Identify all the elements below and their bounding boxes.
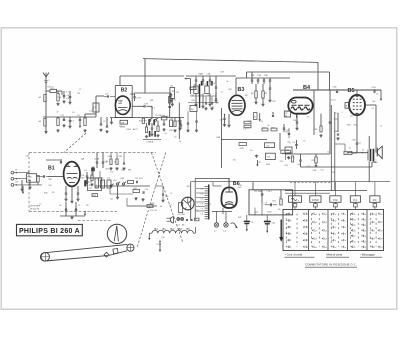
resistor <box>174 121 176 127</box>
svg-text:C4: C4 <box>84 170 86 172</box>
svg-text:R14: R14 <box>263 128 266 130</box>
svg-text:30: 30 <box>254 116 256 118</box>
resistor R19 <box>239 143 247 146</box>
svg-text:R29: R29 <box>312 160 315 162</box>
svg-text:e: e <box>315 206 316 208</box>
resistor R20 <box>281 150 291 153</box>
svg-text:25k: 25k <box>110 199 113 201</box>
svg-text:2k2: 2k2 <box>261 194 264 196</box>
wire bus y167 <box>301 166 373 168</box>
capacitor <box>202 76 204 80</box>
svg-text:C41: C41 <box>89 188 92 190</box>
box <box>95 178 99 188</box>
commutator table frame <box>283 210 384 251</box>
svg-text:R47: R47 <box>245 95 248 97</box>
wire bus <box>186 75 236 77</box>
tapped coil <box>208 185 210 220</box>
coil <box>84 118 86 126</box>
resistor R37 <box>128 181 134 184</box>
svg-text:5k: 5k <box>213 83 215 85</box>
svg-text:0,1: 0,1 <box>100 182 103 184</box>
capacitor <box>195 76 197 80</box>
resistor R17 R16 <box>244 121 251 124</box>
capacitor C156 <box>159 241 161 243</box>
svg-text:R13: R13 <box>248 121 251 123</box>
svg-text:C0: C0 <box>59 205 61 207</box>
capacitors C150 C151 <box>65 202 67 208</box>
capacitor C58 <box>315 163 317 166</box>
wire <box>252 182 254 190</box>
tube B5 <box>349 95 365 115</box>
svg-text:R9: R9 <box>52 192 54 194</box>
terminal circles <box>11 171 14 174</box>
capacitor C7 <box>170 93 172 95</box>
svg-text:C12: C12 <box>110 172 113 174</box>
svg-text:2: 2 <box>307 234 308 236</box>
wire <box>95 185 150 187</box>
coil <box>57 118 59 126</box>
svg-text:R162: R162 <box>266 164 270 166</box>
ground <box>63 124 65 125</box>
svg-text:R16: R16 <box>198 73 201 75</box>
B+ vertical2 <box>334 112 336 191</box>
wire <box>352 152 357 154</box>
wire top frame <box>195 177 229 179</box>
svg-text:C62: C62 <box>272 222 275 224</box>
strap lower edge <box>109 251 127 256</box>
svg-text:C7: C7 <box>170 205 172 207</box>
svg-text:C88: C88 <box>48 179 51 181</box>
svg-text:0,05: 0,05 <box>25 155 29 157</box>
svg-text:25: 25 <box>364 214 366 216</box>
cluster right <box>100 123 102 125</box>
capacitor <box>162 193 164 195</box>
meter box <box>179 203 183 213</box>
wires below B1 <box>65 186 67 193</box>
svg-text:L29A+B: L29A+B <box>147 141 155 144</box>
svg-text:7a: 7a <box>334 240 336 242</box>
svg-text:C26: C26 <box>191 95 194 97</box>
svg-text:→A: →A <box>158 205 162 208</box>
svg-text:25: 25 <box>364 219 366 221</box>
svg-text:R30: R30 <box>121 178 124 180</box>
svg-text:2: 2 <box>307 240 308 242</box>
PHILIPS BI 260 A label box <box>17 224 83 235</box>
boxes L23 L25 <box>265 143 275 148</box>
svg-text:47: 47 <box>381 222 383 224</box>
svg-text:C88: C88 <box>169 130 172 132</box>
svg-text:47: 47 <box>381 239 383 241</box>
svg-text:COMMUTATORE IN POSIZIONE O.: COMMUTATORE IN POSIZIONE O.C. <box>305 262 357 266</box>
capacitor C13 <box>283 124 285 128</box>
svg-text:25: 25 <box>354 236 356 238</box>
svg-text:B2: B2 <box>121 87 128 93</box>
ground <box>255 98 257 101</box>
svg-text:R27: R27 <box>199 95 202 97</box>
svg-text:R33: R33 <box>128 170 131 172</box>
svg-text:C20: C20 <box>121 170 124 172</box>
wire <box>126 198 128 206</box>
svg-text:L75 L9C: L75 L9C <box>150 210 158 212</box>
terminal L8 <box>225 212 227 223</box>
switch tab <box>294 202 296 203</box>
svg-text:7a: 7a <box>334 227 336 229</box>
svg-text:47: 47 <box>373 214 375 216</box>
wire <box>347 152 368 154</box>
anchor diamond <box>104 252 109 257</box>
capacitor <box>123 162 125 164</box>
svg-text:5k: 5k <box>267 125 269 127</box>
svg-text:C8: C8 <box>135 178 137 180</box>
dashed diagonal <box>137 153 166 249</box>
pulley left <box>41 253 49 261</box>
wire main y90 <box>293 89 381 91</box>
svg-text:100: 100 <box>15 182 18 184</box>
svg-text:1,5: 1,5 <box>95 187 98 189</box>
lamp plug <box>170 217 173 223</box>
capacitor C17 <box>63 119 65 121</box>
wire <box>365 104 376 106</box>
svg-text:C48: C48 <box>165 196 168 198</box>
ground arrow <box>256 160 258 165</box>
svg-text:25: 25 <box>364 230 366 232</box>
wire <box>95 96 97 102</box>
table contents <box>286 213 287 214</box>
svg-text:NOTE REF: NOTE REF <box>30 206 41 208</box>
svg-text:R8: R8 <box>251 93 253 95</box>
svg-text:4,7: 4,7 <box>279 197 282 199</box>
tube B1 <box>64 162 80 187</box>
svg-text:0,5: 0,5 <box>287 153 290 155</box>
svg-text:10: 10 <box>221 92 223 94</box>
svg-text:25: 25 <box>354 214 356 216</box>
resistor box <box>170 88 175 99</box>
capacitor C36 <box>296 114 298 122</box>
wire <box>236 77 290 79</box>
capacitors osc top <box>96 153 98 163</box>
svg-text:2: 2 <box>307 220 308 222</box>
svg-text:C7: C7 <box>292 158 294 160</box>
svg-text:• Cont. di onda: • Cont. di onda <box>285 253 303 257</box>
capacitor <box>215 76 217 87</box>
svg-text:47: 47 <box>373 222 375 224</box>
svg-text:25: 25 <box>364 225 366 227</box>
svg-text:47: 47 <box>135 198 137 200</box>
svg-text:TP 102: TP 102 <box>254 190 262 193</box>
capacitor C12 <box>288 133 290 135</box>
switch feed <box>294 182 296 196</box>
svg-text:L3: L3 <box>178 224 180 226</box>
capacitor <box>209 76 211 80</box>
svg-text:1,8: 1,8 <box>201 213 203 215</box>
arrow <box>159 241 161 250</box>
capacitor C46 <box>336 89 338 91</box>
svg-text:C2: C2 <box>103 121 105 123</box>
svg-text:R16: R16 <box>47 87 50 89</box>
wire <box>371 162 373 167</box>
wire below B6 <box>222 208 224 214</box>
svg-text:O.M.: O.M. <box>333 200 338 202</box>
svg-text:5k: 5k <box>105 162 107 164</box>
svg-text:L8: L8 <box>372 108 374 110</box>
svg-text:47: 47 <box>373 230 375 232</box>
svg-text:B5: B5 <box>348 88 355 94</box>
svg-text:0,5: 0,5 <box>210 98 213 100</box>
wire <box>185 78 191 80</box>
ground <box>57 103 59 104</box>
svg-text:25: 25 <box>354 241 356 243</box>
switch feed <box>314 182 316 196</box>
capacitor <box>63 95 65 97</box>
ground <box>84 129 86 130</box>
arrow <box>259 113 261 120</box>
wire <box>220 108 222 168</box>
power supply box TP102 <box>249 190 293 215</box>
resistor <box>116 159 118 165</box>
resistor R47 <box>133 189 140 192</box>
dial drum <box>107 224 126 243</box>
IF core <box>199 84 201 108</box>
wire <box>329 72 331 90</box>
svg-text:a3: a3 <box>325 239 327 241</box>
dashed diagonal <box>151 153 183 244</box>
svg-text:R65: R65 <box>314 129 317 131</box>
ground <box>111 118 113 122</box>
svg-text:7a: 7a <box>344 220 346 222</box>
ground <box>45 131 47 132</box>
svg-text:25k: 25k <box>81 175 84 177</box>
pulley right <box>127 244 134 251</box>
wire <box>143 139 161 141</box>
wire grid <box>134 92 171 94</box>
switch box ~ <box>289 196 302 203</box>
frame verticals <box>190 182 192 220</box>
svg-text:2: 2 <box>290 214 291 216</box>
svg-text:2: 2 <box>290 220 291 222</box>
svg-text:L8: L8 <box>303 140 305 142</box>
svg-text:M.F.: M.F. <box>373 200 378 202</box>
wire <box>235 78 237 95</box>
svg-text:B4: B4 <box>303 85 311 91</box>
tube B2 <box>115 96 130 114</box>
svg-text:7a: 7a <box>334 247 336 249</box>
wire <box>228 178 230 187</box>
resistor R10 <box>142 118 144 123</box>
svg-text:0,05: 0,05 <box>139 178 143 180</box>
switch box FONO <box>310 196 321 203</box>
wire row2 <box>43 116 96 118</box>
resistor <box>157 121 159 127</box>
svg-text:25k: 25k <box>166 116 169 118</box>
svg-text:C12: C12 <box>327 152 330 154</box>
svg-text:C7: C7 <box>263 204 265 206</box>
ground <box>135 197 137 198</box>
wire <box>317 62 319 90</box>
box R14b <box>254 113 258 120</box>
wire <box>380 90 382 97</box>
switch tab <box>354 202 356 203</box>
component <box>147 205 153 208</box>
svg-text:47: 47 <box>381 247 383 249</box>
wire <box>92 166 94 178</box>
svg-text:0,1: 0,1 <box>359 143 362 145</box>
svg-text:e: e <box>355 206 356 208</box>
resistor SO6 <box>44 119 46 127</box>
svg-text:10: 10 <box>376 94 378 96</box>
svg-text:C30: C30 <box>272 101 275 103</box>
switch <box>149 119 151 121</box>
svg-text:e: e <box>374 206 375 208</box>
svg-text:R36: R36 <box>119 156 122 158</box>
arrow <box>215 92 217 99</box>
ground <box>57 129 59 130</box>
wire <box>45 91 47 131</box>
capacitor C38 <box>136 181 138 183</box>
wire <box>18 172 30 174</box>
svg-text:a3: a3 <box>325 214 327 216</box>
svg-text:L13: L13 <box>100 178 103 180</box>
switch circle <box>110 185 112 187</box>
capacitor <box>146 123 148 127</box>
svg-text:+C5 R45: +C5 R45 <box>178 214 185 216</box>
resistor SO5 <box>44 95 46 102</box>
ground <box>256 155 258 156</box>
meter circle <box>182 197 195 210</box>
wire <box>178 103 180 140</box>
svg-text:a3: a3 <box>315 247 317 249</box>
dash-dot box tuner <box>29 152 156 154</box>
svg-text:7a: 7a <box>344 240 346 242</box>
svg-text:100: 100 <box>233 160 236 162</box>
table divider <box>308 210 310 251</box>
wire <box>85 113 96 115</box>
anchor square <box>113 249 118 254</box>
right of B1 <box>86 175 88 177</box>
wire <box>279 133 281 150</box>
svg-text:7a: 7a <box>344 234 346 236</box>
svg-text:C9: C9 <box>15 169 17 171</box>
svg-text:Metà di corsa: Metà di corsa <box>327 253 343 257</box>
wire <box>221 139 267 141</box>
coil <box>57 94 59 102</box>
ground <box>142 198 144 199</box>
svg-text:47: 47 <box>289 102 291 104</box>
svg-text:R24: R24 <box>347 124 350 126</box>
svg-text:47: 47 <box>373 247 375 249</box>
svg-text:C88: C88 <box>150 100 153 102</box>
tag left of B5 <box>345 103 349 109</box>
svg-text:C31: C31 <box>280 161 283 163</box>
wire <box>144 59 146 93</box>
svg-text:R47: R47 <box>134 188 137 190</box>
capacitor <box>187 111 189 123</box>
ground <box>288 156 290 157</box>
svg-text:1,8: 1,8 <box>201 198 203 200</box>
svg-text:C83: C83 <box>81 178 84 180</box>
svg-text:C5: C5 <box>293 142 295 144</box>
svg-text:47: 47 <box>381 214 383 216</box>
wire <box>190 95 216 97</box>
svg-text:2: 2 <box>307 227 308 229</box>
resistor bars under B2 <box>148 120 150 126</box>
svg-text:4,7: 4,7 <box>28 171 31 173</box>
svg-text:1,5: 1,5 <box>380 125 383 127</box>
box <box>170 120 173 127</box>
capacitor C45 <box>296 114 298 118</box>
svg-text:47: 47 <box>373 239 375 241</box>
svg-text:25: 25 <box>364 236 366 238</box>
svg-text:30: 30 <box>285 116 287 118</box>
switch feed <box>374 182 376 196</box>
svg-text:R24: R24 <box>282 153 285 155</box>
table divider <box>327 210 329 251</box>
svg-text:R50: R50 <box>151 203 154 205</box>
dark component <box>91 167 95 171</box>
capacitor C44 <box>300 154 302 160</box>
svg-text:R23: R23 <box>354 124 357 126</box>
dark cap bar <box>84 180 86 186</box>
svg-text:2k2: 2k2 <box>350 116 353 118</box>
svg-text:a: a <box>298 200 299 202</box>
wire <box>45 82 47 91</box>
contacts <box>177 218 180 221</box>
ground <box>320 134 322 135</box>
capacitor <box>106 125 108 127</box>
terminal L7 <box>216 212 218 223</box>
electrolytic cap C1 <box>246 215 248 221</box>
wire <box>195 94 197 104</box>
svg-text:W: W <box>362 152 364 154</box>
svg-text:a3: a3 <box>315 222 317 224</box>
speaker <box>376 148 378 157</box>
wire <box>335 143 345 145</box>
capacitor C77 <box>143 105 145 107</box>
svg-text:a3: a3 <box>325 247 327 249</box>
capacitor <box>269 84 271 88</box>
capacitor C60 <box>337 113 339 132</box>
svg-text:7a: 7a <box>344 227 346 229</box>
svg-text:C7: C7 <box>205 84 207 86</box>
wire <box>151 106 153 117</box>
svg-text:C40: C40 <box>258 75 261 77</box>
coupling cap <box>107 95 109 97</box>
row of small parts <box>186 219 188 221</box>
bottom double line <box>285 190 367 192</box>
wire <box>356 90 358 95</box>
switch contacts <box>116 183 118 185</box>
svg-text:R15: R15 <box>272 128 275 130</box>
wire <box>213 185 221 187</box>
svg-text:2k2: 2k2 <box>332 172 335 174</box>
svg-text:C12: C12 <box>259 121 262 123</box>
svg-text:47: 47 <box>307 117 309 119</box>
svg-text:C41: C41 <box>251 75 254 77</box>
svg-text:a3: a3 <box>315 214 317 216</box>
wire <box>375 148 377 153</box>
left verticals <box>21 180 23 188</box>
svg-text:C162: C162 <box>267 212 272 214</box>
svg-text:a3: a3 <box>315 230 317 232</box>
ground <box>110 167 112 168</box>
svg-text:C7: C7 <box>79 89 81 91</box>
svg-text:100: 100 <box>195 210 198 212</box>
svg-text:B3: B3 <box>238 87 245 93</box>
svg-text:L14: L14 <box>107 178 110 180</box>
resistor R27 <box>344 151 352 154</box>
svg-text:C1: C1 <box>78 205 80 207</box>
resistor R15 <box>262 91 264 98</box>
capacitor C152 <box>329 121 332 123</box>
